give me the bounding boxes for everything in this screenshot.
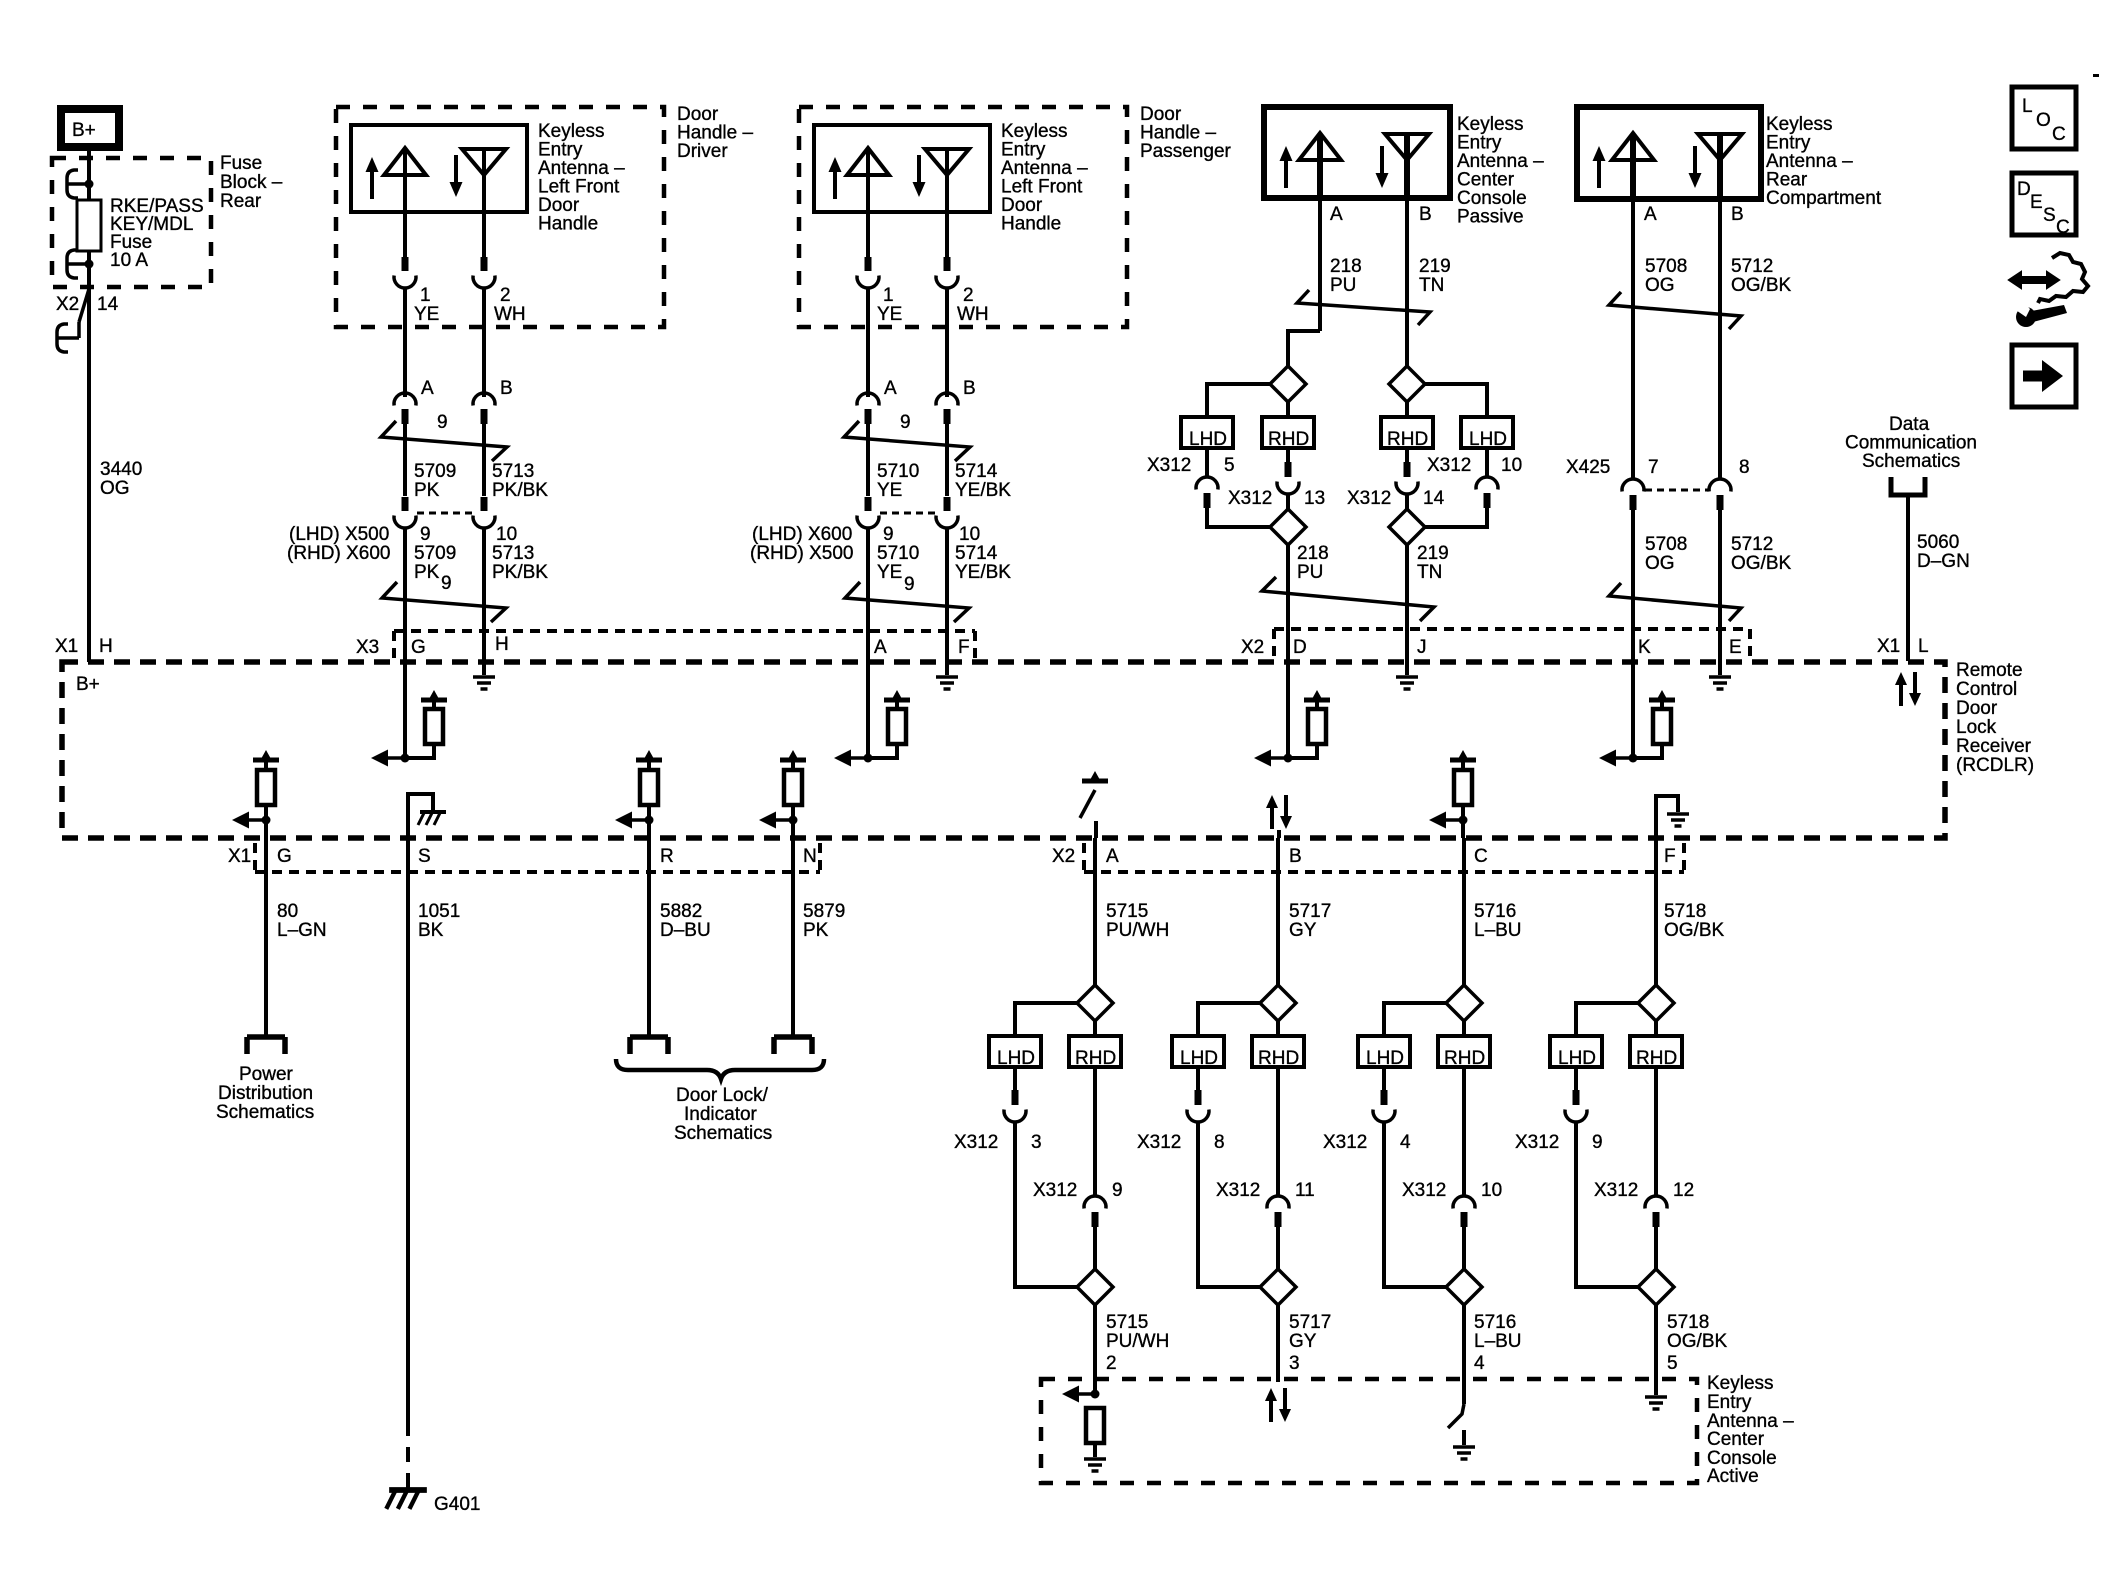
svg-text:PU/WH: PU/WH xyxy=(1106,1331,1169,1352)
door lock indicator schematics label xyxy=(674,1085,772,1144)
svg-text:Keyless: Keyless xyxy=(1707,1373,1774,1394)
wires to crossing xyxy=(403,424,407,496)
tx up arrow xyxy=(366,157,379,199)
antenna pin 2 connector xyxy=(936,257,958,288)
svg-text:5715: 5715 xyxy=(1106,1312,1148,1333)
wire B to splice xyxy=(1276,838,1280,986)
terminal lead-out diagonal xyxy=(79,289,89,322)
antenna pin 1 connector xyxy=(394,257,416,288)
svg-text:A: A xyxy=(1330,204,1343,225)
wire labels 5712 OG/BK xyxy=(1731,256,1792,296)
wire labels 5712 OG/BK lower xyxy=(1731,534,1792,574)
svg-text:LHD: LHD xyxy=(997,1048,1035,1069)
splice diamond C2 xyxy=(1446,1269,1482,1305)
svg-text:X425: X425 xyxy=(1566,457,1610,478)
LHD box A xyxy=(1181,417,1233,450)
keyless entry antenna rear compartment box xyxy=(1577,107,1761,199)
svg-text:PU: PU xyxy=(1330,275,1356,296)
wire to active antenna xyxy=(1276,1305,1280,1382)
X312 pin 9 labels xyxy=(1515,1132,1603,1153)
svg-text:5713: 5713 xyxy=(492,543,534,564)
tx up arrow xyxy=(1593,146,1606,188)
svg-text:9: 9 xyxy=(437,412,448,433)
svg-text:14: 14 xyxy=(97,294,119,315)
connector labels (LHD) X600 (RHD) X500 xyxy=(750,524,853,564)
svg-text:H: H xyxy=(495,634,509,655)
svg-text:80: 80 xyxy=(277,901,298,922)
X312 pin 8 connector xyxy=(1187,1067,1209,1122)
X312 pin 5 connector xyxy=(1196,448,1218,508)
harness crossing symbol xyxy=(1297,290,1430,325)
svg-text:PK: PK xyxy=(414,562,440,583)
wire WH down xyxy=(945,287,949,397)
wire YE down xyxy=(866,287,870,397)
wire labels 5060 D-GN xyxy=(1917,532,1970,572)
svg-text:Entry: Entry xyxy=(1707,1392,1752,1413)
data communication schematics label xyxy=(1845,414,1977,472)
inline connector X500/X600 right half xyxy=(473,497,495,528)
svg-text:D–GN: D–GN xyxy=(1917,551,1970,572)
svg-text:Door: Door xyxy=(1956,698,1998,719)
splice diamond F1 xyxy=(1638,985,1674,1021)
wire to active antenna xyxy=(1093,1305,1097,1394)
splice diamond A1 xyxy=(1077,985,1113,1021)
wire labels 5715 PU/WH upper xyxy=(1106,901,1169,941)
branch to LHD box (A) xyxy=(1207,384,1270,417)
svg-text:WH: WH xyxy=(957,304,989,325)
RHD box xyxy=(1438,1036,1490,1069)
wire 5879 PK xyxy=(791,838,795,1037)
splice diamond A2 xyxy=(1077,1269,1113,1305)
antenna pin 2 connector xyxy=(473,257,495,288)
svg-text:PU/WH: PU/WH xyxy=(1106,920,1169,941)
rx down arrow xyxy=(1376,146,1389,188)
X2-J ground xyxy=(1396,662,1418,689)
rx down arrow xyxy=(450,155,463,197)
svg-text:11: 11 xyxy=(1295,1180,1315,1201)
svg-text:5717: 5717 xyxy=(1289,1312,1331,1333)
X2-D antenna input: wire junction arrow resistor xyxy=(1254,662,1330,767)
off-page connector (door lock R) xyxy=(630,1037,668,1054)
branch to LHD box (B) xyxy=(1425,384,1487,417)
LHD box xyxy=(989,1036,1041,1069)
svg-text:1: 1 xyxy=(883,285,894,306)
wire 5060 D-GN xyxy=(1906,495,1910,661)
clip terminal lower xyxy=(67,250,89,278)
branch to LHD xyxy=(1384,1003,1446,1036)
svg-text:X312: X312 xyxy=(1147,455,1191,476)
connector face dotted line X1 xyxy=(255,843,820,872)
svg-text:12: 12 xyxy=(1673,1180,1694,1201)
svg-text:Handle: Handle xyxy=(538,214,598,235)
wire RHD to splice 2 xyxy=(1654,1227,1658,1270)
X3-H ground xyxy=(473,662,495,689)
rx antenna passive xyxy=(1385,134,1429,198)
svg-text:13: 13 xyxy=(1304,488,1325,509)
wire LHD A to splice 2 xyxy=(1207,508,1270,527)
svg-text:9: 9 xyxy=(883,524,894,545)
svg-text:J: J xyxy=(1417,637,1427,658)
wire labels 5713 PK/BK xyxy=(492,461,548,501)
branch to RHD box (B) xyxy=(1405,402,1409,417)
branch to LHD xyxy=(1198,1003,1260,1036)
active antenna C switch to ground xyxy=(1448,1404,1475,1459)
svg-text:3: 3 xyxy=(1289,1353,1300,1374)
pin labels 1 YE xyxy=(877,285,902,325)
LHD box xyxy=(1550,1036,1602,1069)
LHD box B xyxy=(1461,417,1513,450)
svg-text:H: H xyxy=(99,636,113,657)
svg-text:(RCDLR): (RCDLR) xyxy=(1956,755,2034,776)
fuse RKE/PASS KEY/MDL 10A xyxy=(77,200,101,251)
X3-G antenna input: wire junction arrow resistor xyxy=(371,662,447,767)
svg-text:L–BU: L–BU xyxy=(1474,920,1522,941)
wire labels 5714 YE/BK below connector xyxy=(955,543,1011,583)
active antenna B rf arrows xyxy=(1265,1388,1291,1422)
antenna label (driver) xyxy=(538,121,625,235)
rx down arrow xyxy=(913,155,926,197)
active antenna A termination: arrow resistor ground xyxy=(1062,1386,1106,1472)
svg-text:218: 218 xyxy=(1297,543,1329,564)
wire RHD to splice 2 xyxy=(1093,1227,1097,1270)
svg-text:LHD: LHD xyxy=(1558,1048,1596,1069)
connector X1 pin H labels xyxy=(55,636,113,657)
wire labels 219 TN lower xyxy=(1417,543,1449,583)
power distribution schematics label xyxy=(216,1064,314,1123)
svg-text:X312: X312 xyxy=(1216,1180,1260,1201)
antenna pin 1 connector xyxy=(857,257,879,288)
wire RHD B to splice 2 xyxy=(1405,493,1409,510)
wire labels 5716 L-BU upper xyxy=(1474,901,1522,941)
svg-text:2: 2 xyxy=(963,285,974,306)
connector face dotted line X2 xyxy=(1084,843,1684,872)
svg-text:5718: 5718 xyxy=(1664,901,1706,922)
svg-text:5716: 5716 xyxy=(1474,1312,1516,1333)
connector face dotted line X3 xyxy=(394,631,975,660)
RCDLR label xyxy=(1956,660,2034,776)
connector labels (LHD) X500 (RHD) X600 xyxy=(287,524,390,564)
connector pins A F labels xyxy=(874,637,970,658)
X312 pin 12 labels xyxy=(1594,1180,1694,1201)
DESC icon box xyxy=(2012,173,2076,238)
inline connector pin A xyxy=(857,378,897,424)
svg-text:(RHD) X600: (RHD) X600 xyxy=(287,543,390,564)
svg-text:X2: X2 xyxy=(56,294,79,315)
svg-text:5716: 5716 xyxy=(1474,901,1516,922)
svg-text:9: 9 xyxy=(441,573,452,594)
X312 pin 13 labels xyxy=(1228,488,1325,509)
svg-text:PK/BK: PK/BK xyxy=(492,562,548,583)
svg-text:3440: 3440 xyxy=(100,459,142,480)
svg-text:C: C xyxy=(1474,846,1488,867)
tx up arrow xyxy=(829,157,842,199)
svg-text:YE: YE xyxy=(877,304,902,325)
svg-text:OG/BK: OG/BK xyxy=(1664,920,1725,941)
svg-text:10: 10 xyxy=(959,524,980,545)
wire WH down xyxy=(482,287,486,397)
svg-text:O: O xyxy=(2036,110,2051,131)
keyless entry antenna left front door handle box (driver) xyxy=(351,125,527,212)
svg-text:D: D xyxy=(1293,637,1307,658)
X312 pin 14 labels xyxy=(1347,488,1445,509)
svg-text:WH: WH xyxy=(494,304,526,325)
repair info icon (arrows, outline, wrench) xyxy=(2009,253,2088,327)
connector pins K E labels xyxy=(1638,637,1742,658)
svg-text:Driver: Driver xyxy=(677,141,728,162)
inline connector pin B xyxy=(473,378,513,424)
X312 pin 14 connector xyxy=(1396,448,1418,494)
svg-text:Control: Control xyxy=(1956,679,2017,700)
RHD box xyxy=(1252,1036,1304,1069)
svg-text:10: 10 xyxy=(1481,1180,1502,1201)
svg-text:OG/BK: OG/BK xyxy=(1731,553,1792,574)
splice diamond C1 xyxy=(1446,985,1482,1021)
tx up arrow xyxy=(1280,146,1293,188)
svg-text:OG: OG xyxy=(1645,275,1675,296)
svg-text:7: 7 xyxy=(1648,457,1659,478)
pin labels A B xyxy=(1644,204,1744,225)
X312 pin 9 connector xyxy=(1084,1067,1106,1227)
wire LHD to splice 2 xyxy=(1576,1121,1638,1287)
svg-text:YE: YE xyxy=(414,304,439,325)
svg-text:5709: 5709 xyxy=(414,543,456,564)
door handle driver dashed box xyxy=(336,107,664,327)
tx antenna rear xyxy=(1612,133,1654,199)
svg-text:1051: 1051 xyxy=(418,901,460,922)
svg-text:F: F xyxy=(958,637,970,658)
wire labels 5710 YE below connector xyxy=(877,543,919,583)
svg-text:Lock: Lock xyxy=(1956,717,1997,738)
svg-text:X2: X2 xyxy=(1052,846,1075,867)
svg-text:BK: BK xyxy=(418,920,444,941)
X312 pin 4 labels xyxy=(1323,1132,1411,1153)
svg-text:5709: 5709 xyxy=(414,461,456,482)
RHD box A xyxy=(1262,417,1314,450)
wire labels 5717 GY upper xyxy=(1289,901,1331,941)
splice diamond B2 xyxy=(1389,509,1425,545)
wire A (5708 OG) down xyxy=(1631,199,1635,479)
svg-text:1: 1 xyxy=(420,285,431,306)
svg-text:5708: 5708 xyxy=(1645,534,1687,555)
wire 1051 BK xyxy=(406,838,410,1421)
svg-text:5: 5 xyxy=(1667,1353,1678,1374)
wire LHD to splice 2 xyxy=(1015,1121,1077,1287)
svg-text:14: 14 xyxy=(1423,488,1445,509)
fuse block label xyxy=(220,153,283,212)
X312 pin 4 connector xyxy=(1373,1067,1395,1122)
svg-text:LHD: LHD xyxy=(1180,1048,1218,1069)
svg-text:B+: B+ xyxy=(76,674,100,695)
svg-text:RHD: RHD xyxy=(1075,1048,1116,1069)
svg-text:X312: X312 xyxy=(1402,1180,1446,1201)
harness crossing symbol with 9 xyxy=(381,412,507,461)
wire 218 PU to RCDLR xyxy=(1286,545,1290,662)
rx antenna passenger xyxy=(925,149,969,258)
svg-text:(LHD) X500: (LHD) X500 xyxy=(289,524,389,545)
svg-text:Handle: Handle xyxy=(1001,214,1061,235)
wire to active antenna xyxy=(1654,1305,1658,1395)
branch to RHD xyxy=(1093,1021,1097,1036)
wire labels 5718 OG/BK upper xyxy=(1664,901,1725,941)
connector dashed link xyxy=(417,512,472,515)
svg-text:PU: PU xyxy=(1297,562,1323,583)
wire labels 80 L-GN xyxy=(277,901,327,941)
harness crossing symbol 2 with 9 xyxy=(382,573,506,622)
X1-N output: termination resistor and arrow xyxy=(759,750,806,838)
svg-text:TN: TN xyxy=(1419,275,1444,296)
svg-text:Schematics: Schematics xyxy=(1862,451,1960,472)
remote control door lock receiver dashed box xyxy=(62,662,1945,838)
svg-text:5718: 5718 xyxy=(1667,1312,1709,1333)
svg-text:5714: 5714 xyxy=(955,461,998,482)
svg-text:Center: Center xyxy=(1707,1429,1765,1450)
svg-text:8: 8 xyxy=(1739,457,1750,478)
wire A (218 PU) down xyxy=(1318,198,1322,331)
wire labels 219 TN xyxy=(1419,256,1451,296)
splice diamond A1 xyxy=(1270,366,1306,402)
wire LHD to splice 2 xyxy=(1384,1121,1446,1287)
LHD box xyxy=(1172,1036,1224,1069)
wire labels 5717 GY lower xyxy=(1289,1312,1331,1352)
svg-text:GY: GY xyxy=(1289,920,1317,941)
inline connector X500/X600 left half xyxy=(394,497,416,528)
svg-text:219: 219 xyxy=(1419,256,1451,277)
svg-text:B+: B+ xyxy=(72,120,96,141)
X425 pin 8 connector xyxy=(1709,479,1731,510)
off-page connector symbol xyxy=(1891,477,1925,495)
rx antenna rear xyxy=(1698,134,1742,199)
X1-R output: termination resistor and arrow xyxy=(615,750,662,838)
svg-text:LHD: LHD xyxy=(1469,429,1507,450)
tx antenna passive xyxy=(1299,133,1341,198)
svg-text:X312: X312 xyxy=(1033,1180,1077,1201)
wire labels 5882 D-BU xyxy=(660,901,711,941)
svg-text:5060: 5060 xyxy=(1917,532,1959,553)
brace for door lock indicator schematics xyxy=(616,1059,824,1079)
svg-text:OG/BK: OG/BK xyxy=(1667,1331,1728,1352)
junction dot xyxy=(85,180,94,189)
wire labels 5709 PK xyxy=(414,461,456,501)
svg-text:RHD: RHD xyxy=(1444,1048,1485,1069)
wire F to splice xyxy=(1654,838,1658,986)
X312 pin 11 connector xyxy=(1267,1067,1289,1227)
wire labels 5714 YE/BK xyxy=(955,461,1011,501)
X312 pin 10 labels xyxy=(1402,1180,1502,1201)
wire labels 5715 PU/WH lower xyxy=(1106,1312,1169,1352)
svg-text:5879: 5879 xyxy=(803,901,845,922)
svg-text:Indicator: Indicator xyxy=(684,1104,758,1125)
svg-text:GY: GY xyxy=(1289,1331,1317,1352)
harness crossing symbol xyxy=(1609,292,1741,329)
wire labels 5708 OG lower xyxy=(1645,534,1687,574)
harness crossing symbol with 9 xyxy=(844,412,970,461)
wire 80 L-GN xyxy=(264,838,268,1037)
X3-A antenna input (passenger): wire junction arrow resistor xyxy=(834,662,910,767)
svg-text:5715: 5715 xyxy=(1106,901,1148,922)
svg-text:B: B xyxy=(963,378,976,399)
LHD box xyxy=(1358,1036,1410,1069)
svg-text:Receiver: Receiver xyxy=(1956,736,2032,757)
svg-text:Compartment: Compartment xyxy=(1766,188,1882,209)
svg-text:9: 9 xyxy=(904,574,915,595)
wires down to RCDLR xyxy=(866,527,870,662)
tx antenna driver xyxy=(384,148,426,258)
svg-text:X312: X312 xyxy=(1228,488,1272,509)
svg-text:X312: X312 xyxy=(1515,1132,1559,1153)
wire labels 5718 OG/BK lower xyxy=(1667,1312,1728,1352)
svg-text:PK: PK xyxy=(414,480,440,501)
X2 connector labels D J xyxy=(1241,637,1427,658)
svg-text:10: 10 xyxy=(496,524,517,545)
svg-text:YE: YE xyxy=(877,562,902,583)
svg-text:S: S xyxy=(2043,205,2056,226)
svg-text:S: S xyxy=(418,846,431,867)
wire 3440 OG down to RCDLR X1-H xyxy=(87,287,91,662)
svg-text:(LHD) X600: (LHD) X600 xyxy=(752,524,852,545)
svg-text:9: 9 xyxy=(900,412,911,433)
X425 pin 7 connector xyxy=(1622,479,1644,510)
wire labels 5710 YE xyxy=(877,461,919,501)
B+ terminal box xyxy=(61,109,119,147)
svg-text:X2: X2 xyxy=(1241,637,1264,658)
X2-A switch output xyxy=(1080,771,1108,838)
pin labels 1 YE xyxy=(414,285,439,325)
svg-text:YE/BK: YE/BK xyxy=(955,480,1011,501)
X312 pin 9 connector xyxy=(1565,1067,1587,1122)
X2-K antenna input: wire junction arrow resistor xyxy=(1599,662,1675,767)
svg-text:X1: X1 xyxy=(55,636,78,657)
svg-text:Power: Power xyxy=(239,1064,294,1085)
svg-text:G: G xyxy=(277,846,292,867)
clip terminal upper xyxy=(67,170,89,198)
wires down to RCDLR xyxy=(403,527,407,662)
X1-G output: termination resistor and arrow xyxy=(232,750,279,838)
wire labels 5713 PK/BK below connector xyxy=(492,543,548,583)
antenna label (passenger) xyxy=(1001,121,1088,235)
connector face dotted line X2 xyxy=(1274,629,1750,660)
svg-text:5712: 5712 xyxy=(1731,256,1773,277)
LOC icon box xyxy=(2012,87,2076,149)
svg-text:2: 2 xyxy=(1106,1353,1117,1374)
svg-text:L: L xyxy=(2022,96,2033,117)
svg-text:RHD: RHD xyxy=(1387,429,1428,450)
svg-text:10: 10 xyxy=(1501,455,1522,476)
rx antenna driver xyxy=(462,149,506,258)
svg-text:G: G xyxy=(411,637,426,658)
svg-text:OG: OG xyxy=(1645,553,1675,574)
RHD box xyxy=(1630,1036,1682,1069)
svg-text:Schematics: Schematics xyxy=(674,1123,772,1144)
wire LHD B to splice 2 xyxy=(1425,508,1487,527)
wire A jog to splice xyxy=(1288,331,1320,366)
wire label 3440 OG xyxy=(100,459,142,499)
svg-text:5710: 5710 xyxy=(877,461,919,482)
pin labels A B xyxy=(1330,204,1432,225)
svg-text:Fuse: Fuse xyxy=(220,153,262,174)
door handle passenger label xyxy=(1140,104,1232,162)
connector dashed link xyxy=(880,512,935,515)
splice diamond A2 xyxy=(1270,509,1306,545)
svg-text:X312: X312 xyxy=(1323,1132,1367,1153)
svg-text:YE/BK: YE/BK xyxy=(955,562,1011,583)
antenna label (center console passive) xyxy=(1457,114,1544,228)
active antenna F ground xyxy=(1645,1397,1667,1409)
svg-text:B: B xyxy=(1419,204,1432,225)
svg-text:A: A xyxy=(421,378,434,399)
svg-text:4: 4 xyxy=(1400,1132,1411,1153)
svg-text:B: B xyxy=(1731,204,1744,225)
pin labels 2 WH xyxy=(494,285,526,325)
